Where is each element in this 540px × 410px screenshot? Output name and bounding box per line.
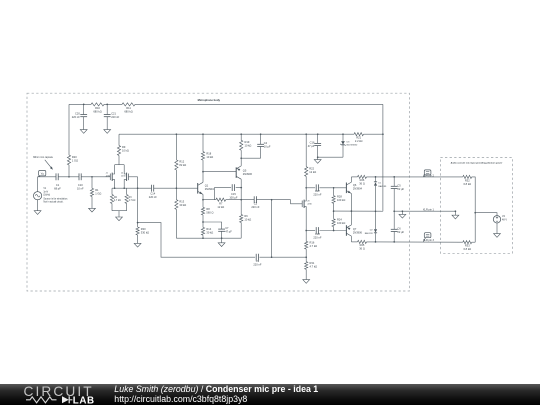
transistor Q6 2N3904: [345, 183, 347, 194]
node Q1 emitter: [202, 199, 204, 201]
svg-text:XLR pin 2: XLR pin 2: [423, 174, 435, 177]
ground mid line: [402, 210, 404, 212]
resistor R32 6.8k phantom: [463, 175, 472, 178]
resistor R24 100k: [332, 219, 335, 227]
wire R7 row: [203, 199, 216, 201]
svg-text:R18: R18: [206, 152, 211, 156]
wire Q6 collector: [350, 177, 352, 182]
wire emitter bus: [350, 194, 352, 225]
svg-text:38mm mic capsule: 38mm mic capsule: [33, 156, 54, 159]
resistor R30 330k to ground: [137, 223, 139, 227]
svg-text:Not in actual circuit.: Not in actual circuit.: [43, 201, 63, 204]
wire to Q5 base: [203, 171, 236, 173]
svg-text:R20: R20: [72, 155, 77, 159]
wire capsule node: [38, 176, 56, 178]
resistor R7 12k: [216, 198, 226, 201]
svg-text:4.7 kΩ: 4.7 kΩ: [114, 200, 121, 202]
resistor R20 1G: [67, 155, 70, 165]
voltage source V2 48V: [493, 216, 500, 223]
svg-text:R26: R26: [360, 178, 365, 182]
svg-text:47 µF: 47 µF: [308, 144, 315, 148]
capacitor C20 220n: [83, 104, 85, 114]
svg-text:2.2 kΩ: 2.2 kΩ: [355, 139, 363, 143]
svg-text:R28: R28: [337, 195, 342, 199]
svg-text:220 nF: 220 nF: [111, 115, 119, 119]
ground JFET pair: [116, 217, 123, 221]
svg-text:Q6: Q6: [353, 183, 357, 187]
svg-text:R11: R11: [126, 106, 131, 110]
jfet J3 splitter: [301, 201, 303, 208]
svg-text:47 µF: 47 µF: [225, 230, 232, 234]
node Q5 emitter top: [240, 157, 242, 159]
svg-text:C16: C16: [310, 140, 315, 144]
svg-text:4.7 kΩ: 4.7 kΩ: [310, 264, 318, 268]
svg-text:R7: R7: [219, 202, 223, 206]
resistor R3 4.7k: [126, 188, 128, 194]
wire console pin1 ground: [455, 210, 457, 212]
svg-text:10 kΩ: 10 kΩ: [245, 144, 252, 148]
svg-text:Source is for simulation.: Source is for simulation.: [43, 198, 68, 201]
wire feedback run to bottom rail: [138, 223, 256, 258]
node R20 junction: [68, 176, 70, 178]
resistor R22 12k: [305, 167, 308, 177]
node bias mid: [333, 210, 335, 212]
capacitor C21 220n: [106, 104, 108, 114]
node rail-C20: [83, 104, 85, 106]
wire console pin2 to bus: [472, 177, 476, 242]
svg-text:R13: R13: [179, 199, 184, 203]
svg-text:48 V: 48 V: [502, 218, 507, 221]
voltage source V1 capsule (simulation): [37, 177, 39, 192]
svg-text:R16: R16: [310, 241, 315, 245]
wire zener to ground: [318, 156, 343, 158]
svg-text:C17: C17: [315, 189, 320, 193]
svg-text:Audio console mic input provid: Audio console mic input providing phanto…: [451, 161, 503, 164]
svg-text:4.7 kΩ: 4.7 kΩ: [310, 244, 318, 248]
svg-text:R22: R22: [309, 167, 314, 171]
wire pin2 left: [351, 176, 357, 178]
svg-text:C7: C7: [225, 226, 229, 230]
ground V1: [34, 211, 41, 215]
capacitor C10 10n: [78, 173, 80, 180]
node caps mid: [393, 210, 395, 212]
node console bus: [474, 212, 476, 214]
svg-text:BAV199: BAV199: [378, 185, 387, 188]
svg-text:C14: C14: [150, 192, 155, 196]
svg-text:XLR pin 3: XLR pin 3: [423, 239, 435, 242]
svg-text:4.7 kΩ: 4.7 kΩ: [129, 200, 136, 202]
svg-text:2N3906: 2N3906: [243, 172, 253, 176]
capacitor C2 220n coupling: [253, 196, 255, 203]
svg-text:30 kΩ: 30 kΩ: [179, 203, 186, 207]
capacitor C15 100u loop: [215, 188, 232, 200]
capacitor C14 220n coupling: [151, 185, 153, 192]
svg-text:R32: R32: [465, 179, 470, 183]
node lower bias: [333, 230, 335, 232]
svg-text:36 Ω: 36 Ω: [359, 247, 365, 251]
resistor R33 6.8k phantom: [463, 241, 472, 244]
svg-text:10 kΩ: 10 kΩ: [244, 218, 251, 222]
resistor R16 4.7k source bias: [305, 231, 307, 242]
svg-text:10 µF: 10 µF: [264, 145, 271, 149]
svg-text:R31: R31: [310, 261, 315, 265]
svg-text:30 kΩ: 30 kΩ: [206, 230, 213, 234]
svg-text:Q1: Q1: [205, 184, 209, 188]
svg-text:C21: C21: [111, 111, 116, 115]
capacitor C6 22u: [393, 211, 395, 229]
svg-text:C15: C15: [231, 192, 236, 196]
zener D3 BZX55B30: [342, 134, 344, 141]
node gate drop: [137, 187, 139, 189]
svg-text:Microphone body: Microphone body: [198, 98, 221, 102]
wire pin3 left: [351, 241, 357, 243]
wire source rail: [112, 187, 151, 189]
wire R22 column: [305, 134, 307, 166]
resistor R11 680k: [122, 103, 135, 106]
svg-text:R9: R9: [122, 145, 126, 149]
svg-text:36 Ω: 36 Ω: [359, 182, 365, 186]
resistor R13 30k: [175, 200, 178, 210]
ground zener: [314, 160, 321, 164]
wire lower drive: [306, 230, 315, 232]
svg-text:Q5: Q5: [243, 168, 247, 172]
svg-text:220 nF: 220 nF: [251, 205, 259, 209]
ground R31: [303, 280, 310, 284]
node stage2 in: [176, 187, 178, 189]
wire C7 branch: [203, 222, 222, 229]
svg-text:68 pF: 68 pF: [54, 187, 61, 191]
node X emitter follower out: [240, 199, 242, 201]
svg-text:12 kΩ: 12 kΩ: [309, 170, 316, 174]
node rail C7: [221, 237, 223, 239]
capacitor C18 220n: [315, 227, 317, 234]
tag input flag: [39, 171, 46, 176]
transistor Q1 2N3904: [197, 183, 199, 194]
resistor R31 4.7k to ground: [305, 257, 307, 261]
svg-text:R24: R24: [337, 218, 342, 222]
svg-text:100 kΩ: 100 kΩ: [337, 221, 345, 225]
node D2 bottom: [375, 241, 377, 243]
capacitor C7 47u: [218, 228, 225, 230]
wire riser to bottom rail: [271, 200, 273, 258]
svg-text:C1: C1: [56, 183, 60, 187]
svg-text:10 nF: 10 nF: [77, 187, 84, 191]
svg-text:82 kΩ: 82 kΩ: [179, 163, 186, 167]
svg-text:(1kHz): (1kHz): [43, 194, 50, 196]
resistor R12 82k: [175, 160, 178, 170]
svg-text:C18: C18: [315, 232, 320, 236]
node J3 source: [305, 230, 307, 232]
resistor R10 680k: [91, 103, 104, 106]
resistor R6 10k: [240, 200, 242, 215]
ground C21: [104, 130, 111, 134]
svg-text:100 kΩ: 100 kΩ: [337, 198, 345, 202]
diode D2 BAV199: [375, 211, 377, 229]
ground R1: [89, 208, 96, 212]
wire bias mid to output mid: [334, 210, 383, 212]
svg-text:22 µF: 22 µF: [397, 230, 404, 234]
ground console: [452, 215, 459, 219]
resistor R9 10k drain feed: [117, 146, 120, 156]
resistor R8 560: [202, 200, 204, 208]
svg-text:330 kΩ: 330 kΩ: [141, 230, 149, 234]
wire top polarization rail: [69, 103, 91, 105]
resistor R26 36: [358, 175, 367, 178]
svg-text:R30: R30: [141, 227, 146, 231]
svg-text:BAV199: BAV199: [365, 232, 374, 235]
jfet J1: [109, 174, 111, 181]
node D1 top: [375, 176, 377, 178]
wire Q5 column top: [240, 134, 242, 140]
svg-text:C20: C20: [75, 111, 80, 115]
svg-text:R14: R14: [206, 227, 211, 231]
enclosure: Audio console mic input providing phantom power (dashed box): [440, 158, 512, 254]
resistor R18 10k: [201, 152, 204, 161]
svg-text:R8: R8: [206, 207, 210, 211]
node J3 drain: [305, 187, 307, 189]
svg-text:R19: R19: [245, 140, 250, 144]
svg-text:10 kΩ: 10 kΩ: [122, 149, 129, 153]
node emitter mid: [351, 210, 353, 212]
ground R30: [134, 243, 141, 247]
wire mid output row: [394, 210, 455, 212]
svg-text:R33: R33: [465, 244, 470, 248]
wire J3 gate step: [291, 200, 303, 204]
svg-text:1mV: 1mV: [43, 191, 48, 193]
svg-text:Q7: Q7: [353, 227, 357, 231]
wire pin2 run: [367, 176, 463, 178]
svg-text:220 nF: 220 nF: [253, 262, 261, 266]
wire pin3 run: [367, 241, 463, 243]
CircuitLab logo: [23, 384, 123, 405]
ground bottom rail: [221, 238, 223, 243]
node rail-C21: [106, 104, 108, 106]
svg-text:220 nF: 220 nF: [72, 115, 80, 119]
svg-text:6.8 kΩ: 6.8 kΩ: [464, 182, 472, 186]
svg-text:6.8 kΩ: 6.8 kΩ: [464, 247, 472, 251]
capacitor C1 68p: [55, 173, 57, 180]
svg-text:R6: R6: [244, 214, 248, 218]
svg-text:2N3906: 2N3906: [353, 230, 363, 234]
wire upper drive: [306, 187, 315, 189]
transistor Q7 2N3906: [345, 225, 347, 236]
svg-text:C4: C4: [264, 141, 268, 145]
svg-text:2N3904: 2N3904: [353, 187, 363, 191]
node upper bias: [333, 187, 335, 189]
capacitor C5 22u: [393, 177, 395, 186]
wire source bottom join: [112, 210, 127, 212]
svg-text:XLR pin 1: XLR pin 1: [423, 209, 435, 212]
wire Q1 emitter: [202, 194, 204, 199]
jfet J2: [128, 174, 130, 181]
capacitor C17 220n: [315, 184, 317, 191]
svg-text:22 µF: 22 µF: [397, 187, 404, 191]
svg-text:C10: C10: [78, 183, 83, 187]
svg-text:12 kΩ: 12 kΩ: [217, 205, 224, 209]
capacitor C16 47u rail filter: [317, 134, 319, 143]
resistor R14 30k: [201, 227, 204, 235]
wire Q7 collector: [350, 236, 352, 242]
wire to V2: [475, 213, 497, 216]
wire bottom ground rail: [176, 237, 241, 239]
resistor R25 36: [358, 240, 367, 243]
svg-text:R10: R10: [95, 106, 100, 110]
svg-text:220 nF: 220 nF: [149, 195, 157, 199]
wire Q1 column: [202, 134, 204, 151]
footer bar: [0, 384, 540, 405]
node C15 join: [240, 187, 242, 189]
wire J2 gate feedback drop: [137, 177, 139, 223]
tag XLR pin 2: [424, 170, 431, 175]
svg-text:2N3904: 2N3904: [205, 187, 215, 191]
svg-text:LAB: LAB: [73, 396, 95, 406]
node cap chain top: [393, 176, 395, 178]
wire left drop to capsule node: [68, 104, 70, 155]
enclosure: Microphone body (dashed box): [27, 93, 409, 291]
svg-text:680 kΩ: 680 kΩ: [124, 110, 132, 114]
diode D1 BAV199: [374, 181, 377, 183]
capacitor C9 220n on feedback rail: [255, 254, 257, 261]
tag XLR pin 3: [424, 233, 431, 238]
svg-text:100 µF: 100 µF: [229, 195, 238, 199]
svg-text:C5: C5: [397, 184, 401, 188]
svg-text:R25: R25: [360, 243, 365, 247]
svg-text:R1: R1: [95, 188, 99, 192]
svg-text:C2: C2: [254, 201, 258, 205]
ground C20: [80, 130, 87, 134]
resistor R28 100k: [333, 188, 335, 196]
wire stage2 column: [175, 134, 177, 160]
node caps bottom: [393, 241, 395, 243]
svg-text:1 GΩ: 1 GΩ: [72, 158, 78, 162]
wire JFET drain top: [118, 134, 120, 145]
svg-text:220 nF: 220 nF: [313, 193, 321, 197]
wire main supply rail: [119, 133, 354, 135]
ground V2: [494, 234, 501, 238]
node R8 bottom: [202, 221, 204, 223]
resistor R19 10k: [240, 140, 243, 150]
svg-text:10 kΩ: 10 kΩ: [206, 155, 213, 159]
svg-text:1 GΩ: 1 GΩ: [95, 192, 101, 196]
svg-text:560 Ω: 560 Ω: [206, 211, 213, 215]
svg-text:BZX55B30: BZX55B30: [347, 144, 358, 146]
svg-text:680 kΩ: 680 kΩ: [93, 110, 101, 114]
node source rail join: [305, 256, 307, 258]
resistor R1 1G to ground: [91, 177, 93, 189]
transistor Q5 2N3906: [240, 158, 242, 166]
svg-text:R21: R21: [356, 136, 361, 140]
svg-text:220 nF: 220 nF: [313, 236, 321, 240]
node C9 riser: [271, 199, 273, 201]
resistor R2 4.7k: [111, 188, 113, 194]
capacitor C4 10u bootstrap: [260, 134, 262, 144]
svg-text:C9: C9: [256, 259, 260, 263]
resistor R21 2.2k rail series: [354, 133, 364, 136]
node feedback corner: [137, 222, 139, 224]
svg-text:R12: R12: [179, 160, 184, 164]
svg-text:C6: C6: [397, 227, 401, 231]
node mid D: [375, 210, 377, 212]
node R1 junction: [91, 176, 93, 178]
node Q1 collector / Q5 base: [202, 171, 204, 173]
wire supply drop x=383: [382, 104, 384, 211]
